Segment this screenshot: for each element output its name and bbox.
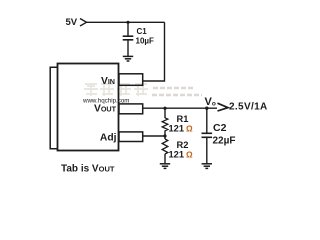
- label R2: [177, 140, 189, 150]
- watermark small gray lines: [152, 88, 202, 95]
- wire Adj to divider: [143, 135, 165, 137]
- regulator U1 tab: [50, 67, 57, 148]
- svg-text:R1: R1: [177, 114, 189, 124]
- output terminal arrow: [218, 103, 229, 111]
- ground for C1: [123, 56, 133, 61]
- node Adj junction: [163, 134, 166, 137]
- capacitor C1: [123, 36, 134, 40]
- label C1: [137, 27, 148, 36]
- label R2 value 121ohm: [169, 150, 194, 160]
- watermark hqchip big characters: [84, 83, 148, 96]
- svg-text:121: 121: [169, 150, 185, 160]
- regulator U1 body: [58, 64, 119, 151]
- ground for R2: [160, 164, 170, 169]
- pin VOUT box: [119, 104, 143, 114]
- svg-text:Tab is VOUT: Tab is VOUT: [61, 164, 115, 175]
- wire VOUT rail: [143, 107, 217, 109]
- resistor R1: [162, 118, 168, 131]
- label R1 value 121ohm: [169, 124, 194, 134]
- label VIN: [101, 76, 115, 87]
- svg-text:VIN: VIN: [101, 76, 115, 87]
- svg-text:5V: 5V: [66, 17, 78, 28]
- svg-text:Adj: Adj: [100, 133, 117, 144]
- 5V label: [66, 17, 78, 28]
- wire input drop to VIN: [143, 22, 165, 81]
- label VOUT: [94, 104, 117, 115]
- capacitor C2: [202, 133, 213, 137]
- svg-text:R2: R2: [177, 140, 189, 150]
- ground for C2: [202, 164, 212, 169]
- wire R1 top stem: [164, 108, 166, 118]
- 5V input terminal: [80, 19, 87, 27]
- wire C1 stem upper: [127, 22, 129, 35]
- watermark url: [82, 97, 129, 104]
- svg-text:C1: C1: [137, 27, 148, 36]
- label Tab is VOUT: [61, 164, 115, 175]
- wire R2 bottom stem: [164, 154, 166, 164]
- label Adj: [100, 133, 117, 144]
- node C2 junction: [205, 107, 208, 110]
- node divider top: [163, 107, 166, 110]
- label Vo: [205, 96, 216, 108]
- svg-text:121: 121: [169, 124, 185, 134]
- svg-text:2.5V/1A: 2.5V/1A: [229, 102, 268, 113]
- label C2 value 22uF: [213, 136, 236, 147]
- label output 2.5V/1A: [229, 102, 268, 113]
- svg-text:VOUT: VOUT: [94, 104, 117, 115]
- pin VIN box: [119, 74, 143, 86]
- label R1: [177, 114, 189, 124]
- node C1 junction: [126, 21, 129, 24]
- pin Adj box: [119, 132, 143, 142]
- svg-text:Ω: Ω: [186, 124, 193, 134]
- svg-text:Ω: Ω: [186, 150, 193, 160]
- wire C2 stem upper: [206, 108, 208, 133]
- wire C1 stem lower: [127, 40, 129, 56]
- label C1 value 10uF: [136, 37, 155, 46]
- label C2: [213, 122, 227, 134]
- svg-text:C2: C2: [213, 122, 227, 134]
- resistor R2: [162, 139, 168, 154]
- wire 5V rail top: [87, 21, 165, 23]
- wire C2 stem lower: [206, 137, 208, 163]
- wire R1-R2 link: [164, 131, 166, 140]
- svg-text:10µF: 10µF: [136, 37, 155, 46]
- svg-text:22µF: 22µF: [213, 136, 236, 147]
